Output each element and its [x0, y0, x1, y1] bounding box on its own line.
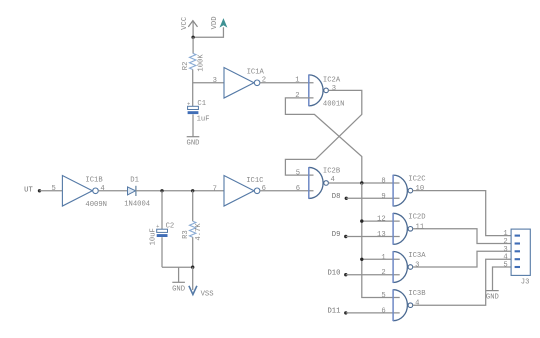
- node junction pin 1 tap: [360, 258, 363, 261]
- wire IC3A output to J3 pin 3: [413, 251, 511, 267]
- inverter IC1A: [224, 68, 254, 99]
- wire tap to IC3A pin 1: [362, 258, 400, 260]
- svg-text:UT: UT: [24, 186, 33, 194]
- svg-text:5: 5: [296, 169, 300, 177]
- wire D8 to IC2C pin 9: [346, 197, 399, 199]
- inverter IC1B: [62, 176, 92, 207]
- node junction IC2B output: [360, 181, 363, 184]
- svg-text:4009N: 4009N: [85, 201, 107, 209]
- svg-text:VDD: VDD: [211, 16, 219, 29]
- ground GND under J3 pin 5: [486, 290, 499, 292]
- node junction pin 12 tap: [360, 219, 363, 222]
- svg-text:IC3B: IC3B: [408, 290, 426, 298]
- svg-text:GND: GND: [172, 286, 185, 294]
- wire IC1B to D1: [98, 190, 127, 192]
- wire VCC arrow to junction: [192, 21, 194, 37]
- svg-text:IC2A: IC2A: [323, 77, 341, 85]
- node D8 terminal dot: [345, 197, 348, 200]
- svg-text:D1: D1: [130, 176, 139, 184]
- wire IC2A pin 2 feedback: [285, 98, 361, 183]
- svg-text:4: 4: [415, 300, 419, 308]
- svg-text:C2: C2: [166, 222, 175, 230]
- svg-text:IC2B: IC2B: [323, 168, 341, 176]
- svg-text:3: 3: [503, 246, 507, 254]
- node VCC-VDD junction: [191, 36, 194, 39]
- svg-text:8: 8: [381, 177, 385, 185]
- capacitor C2: [157, 229, 168, 232]
- svg-text:C1: C1: [197, 100, 206, 108]
- svg-text:IC2D: IC2D: [408, 214, 425, 222]
- wire IC1C to IC2B pin 6: [260, 190, 314, 192]
- svg-text:R3: R3: [182, 230, 190, 239]
- diode D1: [128, 187, 136, 195]
- wire D10 to IC3A pin 2: [346, 274, 400, 276]
- nor gate IC2A: [309, 75, 323, 106]
- svg-text:1: 1: [503, 230, 507, 238]
- node D11 terminal dot: [344, 311, 347, 314]
- svg-text:13: 13: [377, 231, 386, 239]
- svg-text:5: 5: [51, 185, 55, 193]
- svg-text:9: 9: [381, 193, 385, 201]
- svg-text:VSS: VSS: [201, 291, 214, 299]
- nor gate IC3B: [393, 290, 407, 321]
- wire C2 to bottom rail: [161, 237, 163, 267]
- svg-text:D11: D11: [327, 308, 340, 316]
- svg-text:R2: R2: [182, 62, 190, 71]
- svg-text:2: 2: [295, 92, 299, 100]
- svg-text:IC1B: IC1B: [85, 177, 103, 185]
- wire IC2A output cross: [285, 90, 361, 175]
- wire D9 to IC2D pin 13: [346, 236, 400, 238]
- wire D1 to IC1C: [136, 190, 224, 192]
- svg-text:5: 5: [381, 292, 385, 300]
- wire D11 to IC3B pin 6: [346, 312, 400, 314]
- resistor R3: [190, 221, 196, 237]
- svg-text:IC1A: IC1A: [247, 69, 265, 77]
- wire bottom rail: [162, 266, 193, 268]
- svg-text:1uF: 1uF: [197, 115, 210, 123]
- svg-text:4.7K: 4.7K: [195, 223, 203, 241]
- svg-text:IC3A: IC3A: [408, 252, 426, 260]
- svg-text:12: 12: [377, 216, 386, 224]
- node UT terminal dot: [38, 189, 41, 192]
- svg-text:3: 3: [332, 85, 336, 93]
- capacitor C1: [188, 106, 199, 109]
- wire tap to IC1A pin 3: [193, 82, 224, 84]
- power symbol VDD (arrow): [220, 18, 228, 28]
- wire R2 to C1 (vertical): [192, 70, 194, 107]
- svg-text:2: 2: [381, 269, 385, 277]
- svg-text:6: 6: [381, 307, 385, 315]
- nor gate IC3A: [393, 252, 407, 283]
- wire IC2C output to J3 pin 1: [413, 191, 511, 236]
- wire to C2: [161, 191, 163, 229]
- wire junction to VSS: [192, 267, 194, 290]
- svg-text:J3: J3: [521, 278, 530, 286]
- svg-text:VCC: VCC: [181, 16, 189, 30]
- ground GND under C2: [172, 281, 185, 283]
- wire to R3: [192, 191, 194, 221]
- wire C1 to GND: [192, 114, 194, 136]
- wire junction to R2: [192, 37, 194, 53]
- resistor R2: [190, 53, 196, 69]
- ground GND under C1: [187, 136, 200, 138]
- svg-text:IC2C: IC2C: [408, 175, 426, 183]
- wire UT to IC1B: [40, 190, 63, 192]
- svg-text:10: 10: [416, 185, 425, 193]
- nor gate IC2B: [309, 167, 323, 198]
- wire GND to J3 pin 5: [493, 267, 512, 290]
- svg-text:GND: GND: [187, 140, 200, 148]
- svg-text:3: 3: [415, 262, 419, 270]
- svg-text:6: 6: [262, 185, 266, 193]
- wire VDD to VCC junction: [193, 27, 223, 37]
- node junction at R3 branch: [191, 189, 194, 192]
- wire trunk to lower gates: [362, 183, 400, 298]
- nor gate IC2C: [393, 175, 407, 206]
- svg-text:D9: D9: [332, 231, 341, 239]
- svg-text:1: 1: [295, 76, 299, 84]
- wire tap to IC2D pin 12: [362, 220, 400, 222]
- svg-text:4: 4: [503, 254, 507, 262]
- svg-text:11: 11: [416, 223, 425, 231]
- svg-text:D10: D10: [327, 269, 340, 277]
- svg-text:4: 4: [100, 185, 104, 193]
- svg-text:1: 1: [381, 254, 385, 262]
- node bottom rail junction: [191, 266, 194, 269]
- power symbol VSS (arrow): [189, 286, 197, 295]
- wire rail to GND stub: [178, 267, 180, 282]
- svg-text:100K: 100K: [197, 54, 205, 72]
- svg-text:10uF: 10uF: [150, 228, 158, 245]
- wire IC2B output to IC2C pin 8: [329, 182, 400, 184]
- nor gate IC2D: [393, 213, 407, 244]
- wire IC1A to IC2A pin 1: [260, 82, 314, 84]
- svg-text:6: 6: [296, 185, 300, 193]
- wire IC2D output to J3 pin 2: [413, 229, 511, 244]
- svg-text:GND: GND: [486, 294, 499, 302]
- svg-text:3: 3: [213, 77, 217, 85]
- connector J3: [511, 229, 530, 275]
- svg-text:7: 7: [213, 185, 217, 193]
- svg-text:IC1C: IC1C: [246, 177, 264, 185]
- svg-text:1N4004: 1N4004: [124, 201, 150, 209]
- node junction at C2 branch: [160, 189, 163, 192]
- svg-text:5: 5: [503, 262, 507, 270]
- svg-text:+: +: [187, 100, 190, 107]
- power symbol VCC (arrow): [188, 21, 197, 27]
- svg-text:4001N: 4001N: [323, 101, 345, 109]
- inverter IC1C: [224, 176, 254, 207]
- node D9 terminal dot: [344, 235, 347, 238]
- svg-text:D8: D8: [332, 193, 341, 201]
- node D10 terminal dot: [344, 273, 347, 276]
- svg-text:2: 2: [503, 238, 507, 246]
- wire R3 to bottom rail: [192, 237, 194, 267]
- wire IC3B output to J3 pin 4: [413, 259, 511, 305]
